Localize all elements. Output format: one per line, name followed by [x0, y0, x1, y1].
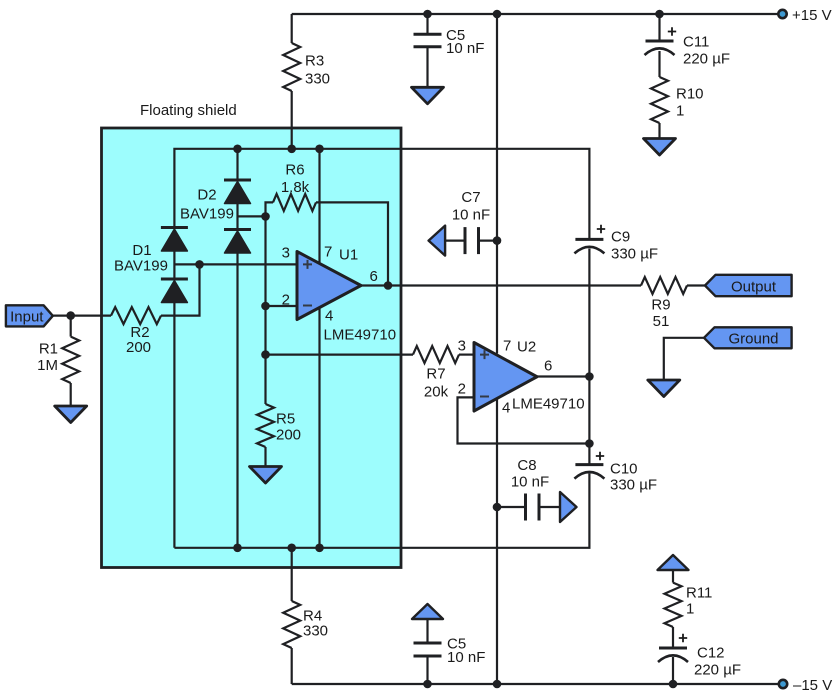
junction C8 tap: [493, 503, 502, 512]
wire U2 pin4: [496, 399, 498, 685]
svg-text:3: 3: [282, 244, 290, 261]
label R7 20k: [424, 365, 449, 400]
svg-text:Input: Input: [10, 309, 44, 326]
wire U1 output: [361, 284, 641, 286]
svg-text:Ground: Ground: [728, 330, 778, 347]
wire C7 left: [445, 240, 465, 242]
svg-text:C10: C10: [610, 460, 638, 477]
svg-text:200: 200: [276, 426, 301, 443]
junction shield rail D2: [233, 145, 242, 154]
junction U2 feedback: [585, 439, 594, 448]
wire C5b top: [426, 619, 428, 643]
label Floating shield: [140, 102, 237, 119]
pin number 6 U1: [370, 268, 378, 285]
label LME49710 U2: [512, 395, 585, 412]
svg-text:2: 2: [458, 380, 466, 397]
junction shield bottom U1 pin4: [315, 544, 324, 553]
junction top rail C5: [423, 10, 432, 19]
wire C8 left: [497, 506, 526, 508]
wire Ground flag: [664, 338, 704, 380]
pin number 4 U1: [325, 307, 333, 324]
svg-text:1: 1: [686, 600, 694, 617]
svg-text:D1: D1: [132, 242, 151, 259]
wire +15V rail: [292, 13, 783, 15]
plus sign C10: [596, 452, 604, 460]
resistor R5: [257, 404, 274, 447]
node input junction: [66, 311, 75, 320]
svg-text:U2: U2: [517, 338, 536, 355]
wire C8 right: [539, 506, 560, 508]
svg-text:+15 V: +15 V: [792, 7, 832, 24]
svg-text:10 nF: 10 nF: [446, 40, 484, 57]
resistor R6: [273, 194, 316, 211]
op-amp U1: [297, 252, 361, 320]
junction bottom rail C5: [423, 680, 432, 689]
junction shield rail U1 pin7: [315, 145, 324, 154]
pin number 3 U1: [282, 244, 290, 261]
wire R9 to Output flag: [687, 284, 706, 286]
power terminal +15 V: [778, 10, 786, 18]
label R11 1: [686, 584, 712, 617]
junction D2 mid: [261, 212, 270, 221]
svg-text:10 nF: 10 nF: [452, 206, 490, 223]
label R1 1M: [37, 340, 58, 374]
wire R4 bottom: [291, 648, 293, 684]
label C7 10 nF: [452, 189, 490, 224]
wire Input to R2: [53, 315, 111, 317]
resistor R2: [111, 307, 161, 324]
wire R1 bottom: [70, 383, 72, 406]
wire C11-R10: [658, 51, 660, 77]
flag Output: [705, 275, 792, 296]
wire R3 bottom: [291, 91, 293, 149]
resistor R7: [413, 346, 459, 363]
wire U1 pin7: [318, 149, 320, 263]
pin number 4 U2: [502, 399, 510, 416]
wire C7 right: [479, 240, 498, 242]
floating shield box: [102, 128, 402, 568]
svg-text:C12: C12: [697, 644, 725, 661]
wire U2 Vplus column: [496, 14, 498, 354]
wire U1 pin4: [318, 309, 320, 548]
wire C5a top: [426, 14, 428, 34]
net arrow R11 (shield): [658, 555, 689, 570]
svg-text:7: 7: [503, 337, 511, 354]
svg-text:20k: 20k: [424, 383, 449, 400]
wire C12 bottom: [672, 657, 674, 684]
wire R5 bottom: [264, 447, 266, 467]
capacitor C8: [526, 494, 540, 521]
flag Ground: [704, 327, 792, 348]
wire -15V rail: [292, 683, 783, 685]
label R6 1.8k: [281, 161, 310, 196]
junction shield bottom R4: [287, 544, 296, 553]
label C10 330uF: [610, 460, 657, 493]
junction top rail U2 V+: [493, 10, 502, 19]
wire C9 bottom column: [588, 249, 590, 465]
net arrow C8 (shield): [560, 492, 577, 522]
diode D2 (dual BAV199): [224, 180, 251, 253]
svg-text:3: 3: [458, 337, 466, 354]
svg-text:R10: R10: [676, 85, 704, 102]
svg-text:Output: Output: [731, 278, 777, 295]
svg-text:LME49710: LME49710: [324, 326, 397, 343]
label D1 BAV199: [114, 242, 168, 274]
label R5 200: [276, 410, 301, 443]
label LME49710 U1: [324, 326, 397, 343]
svg-text:R6: R6: [285, 161, 304, 178]
svg-text:C11: C11: [683, 33, 709, 50]
wire R2 to pin3 node: [161, 264, 200, 315]
wire D1 bottom: [173, 303, 175, 548]
diode D1 (dual BAV199): [161, 228, 188, 303]
wire R6 left column: [266, 202, 274, 354]
plus sign C9: [597, 225, 605, 233]
resistor R11: [665, 583, 682, 627]
svg-text:330 µF: 330 µF: [610, 476, 657, 493]
wire R6 right to output: [316, 202, 388, 285]
svg-text:4: 4: [502, 399, 510, 416]
net arrow C7 (shield): [429, 226, 446, 256]
junction shield bottom D2: [233, 544, 242, 553]
svg-text:R5: R5: [276, 410, 295, 427]
label C5 10 nF (top): [446, 27, 484, 57]
junction pin3 node: [195, 260, 204, 269]
svg-text:C7: C7: [461, 189, 480, 206]
junction U1 output: [384, 281, 393, 290]
resistor R10: [651, 77, 668, 123]
power terminal -15 V: [779, 680, 787, 688]
junction top rail C11: [655, 10, 664, 19]
pin number 6 U2: [544, 357, 552, 374]
junction shield rail R3: [287, 145, 296, 154]
label D2 BAV199: [180, 186, 234, 222]
label C11 220uF: [683, 33, 730, 67]
junction C7 tap: [493, 236, 502, 245]
wire D2 top: [236, 149, 238, 180]
label R10 1: [676, 85, 704, 119]
label -15 V: [793, 677, 832, 694]
wire C5a bottom: [426, 47, 428, 88]
flag Input: [6, 305, 53, 326]
label R4 330: [303, 607, 328, 639]
wire shield top rail: [174, 149, 589, 240]
wire R11 top: [672, 570, 674, 583]
label R9 51: [651, 296, 670, 330]
wire D2 midpoint tap: [238, 215, 266, 217]
svg-text:R3: R3: [305, 52, 324, 69]
label C12 220uF: [694, 644, 741, 678]
svg-text:330 µF: 330 µF: [611, 245, 658, 262]
junction R5 R7 node: [261, 350, 270, 359]
svg-text:LME49710: LME49710: [512, 395, 585, 412]
svg-text:C8: C8: [517, 457, 536, 474]
resistor R3: [283, 43, 300, 91]
svg-text:10 nF: 10 nF: [447, 649, 485, 666]
svg-text:51: 51: [653, 313, 670, 330]
junction bottom rail U2 pin4: [493, 680, 502, 689]
label U2: [517, 338, 536, 355]
wire U2 output: [537, 375, 589, 377]
plus sign C12: [679, 634, 687, 642]
svg-text:10 nF: 10 nF: [511, 473, 549, 490]
label U1: [339, 246, 358, 263]
wire C10 bottom / shield bottom rail: [174, 474, 589, 548]
svg-text:BAV199: BAV199: [180, 205, 234, 222]
net arrow C5 bottom (shield): [412, 604, 443, 619]
capacitor C10 (polarized): [574, 465, 604, 479]
capacitor C5 (top): [414, 34, 442, 47]
svg-text:C9: C9: [611, 228, 630, 245]
svg-text:330: 330: [303, 622, 328, 639]
wire R5R7 node: [266, 354, 414, 356]
svg-text:Floating shield: Floating shield: [140, 102, 237, 119]
svg-text:220 µF: 220 µF: [694, 661, 741, 678]
wire R10 bottom: [658, 123, 660, 139]
capacitor C5 (bottom): [414, 643, 442, 656]
svg-text:4: 4: [325, 307, 333, 324]
pin number 7 U2: [503, 337, 511, 354]
junction pin2 node: [261, 302, 270, 311]
ground under R5: [250, 467, 282, 484]
wire pin2 line U1: [266, 305, 298, 307]
ground under R1: [55, 406, 87, 423]
wire D2 bottom: [236, 253, 238, 548]
wire C5b bottom: [426, 656, 428, 684]
svg-text:1.8k: 1.8k: [281, 179, 310, 196]
svg-text:R7: R7: [426, 365, 445, 382]
capacitor C7: [465, 227, 479, 254]
wire R4 top: [291, 548, 293, 601]
label +15 V: [792, 7, 832, 24]
label C8 10 nF: [511, 457, 549, 491]
svg-text:U1: U1: [339, 246, 358, 263]
wire C11 top: [658, 14, 660, 41]
svg-text:1M: 1M: [37, 357, 58, 374]
pin number 7 U1: [324, 243, 332, 260]
svg-text:BAV199: BAV199: [114, 257, 168, 274]
resistor R4: [283, 601, 300, 648]
capacitor C11 (polarized): [645, 41, 675, 55]
junction U2 output: [585, 372, 594, 381]
wire R3 top: [291, 14, 293, 43]
svg-text:R1: R1: [39, 340, 58, 357]
wire R1 top: [70, 316, 72, 337]
svg-text:R11: R11: [686, 584, 712, 601]
svg-text:D2: D2: [197, 186, 216, 203]
ground under Ground flag: [648, 380, 680, 397]
ground under C5 (top): [412, 87, 444, 104]
svg-text:220 µF: 220 µF: [683, 50, 730, 67]
pin number 2 U2: [458, 380, 466, 397]
resistor R9: [641, 277, 687, 294]
junction bottom rail C12: [669, 680, 678, 689]
wire R5 top: [264, 355, 266, 404]
svg-text:6: 6: [370, 268, 378, 285]
capacitor C9 (polarized): [574, 239, 604, 253]
wire U2 feedback: [458, 397, 590, 443]
label R3 330: [305, 52, 330, 87]
pin number 3 U2: [458, 337, 466, 354]
op-amp U2: [474, 343, 537, 412]
capacitor C12 (polarized): [658, 648, 688, 662]
label C9 330uF: [611, 228, 658, 262]
resistor R1: [62, 337, 79, 383]
svg-text:–15 V: –15 V: [793, 677, 832, 694]
plus sign C11: [668, 27, 676, 35]
svg-text:7: 7: [324, 243, 332, 260]
pin number 2 U1: [282, 291, 290, 308]
svg-text:2: 2: [282, 291, 290, 308]
svg-text:R9: R9: [651, 296, 670, 313]
svg-text:1: 1: [676, 102, 684, 119]
ground under R10: [644, 139, 676, 156]
wire R11-C12: [672, 627, 674, 648]
svg-text:200: 200: [126, 339, 151, 356]
svg-text:6: 6: [544, 357, 552, 374]
wire R7 to U2 pin3: [459, 354, 474, 356]
wire pin3 line U1: [174, 263, 297, 265]
label C5 10 nF (bottom): [447, 635, 485, 666]
label R2 200: [126, 324, 151, 356]
svg-text:330: 330: [305, 70, 330, 87]
